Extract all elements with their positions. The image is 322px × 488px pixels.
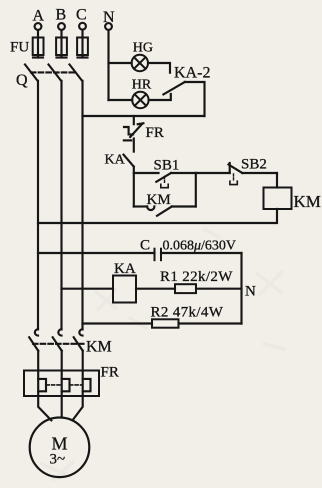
coil KM [264,188,292,210]
svg-text:KM: KM [294,192,321,211]
wire lamp-circuit bottom rail [83,115,205,117]
svg-text:FR: FR [146,125,164,141]
wire R2 row from phase C [83,322,153,324]
contact KA-2 changeover blade [163,82,184,94]
svg-text:B: B [56,7,67,24]
contact KM auxiliary (NO, self-hold) [147,207,196,216]
svg-text:C: C [140,238,150,254]
contactor KM main contact C [74,329,83,370]
lamp HR [132,92,148,108]
svg-text:SB1: SB1 [154,158,180,174]
wire loop right vertical [195,173,197,207]
svg-text:FU: FU [10,40,29,56]
wire FR through B [61,371,63,397]
wire capacitor to N rail [161,252,242,254]
wire R1 to N rail [196,288,242,290]
resistor R2 47k/4W [152,319,179,327]
svg-text:N: N [103,9,115,26]
button SB1 (NO) [156,173,196,188]
switch Q blade B [49,65,62,81]
wire HR branch left [109,99,133,101]
switch Q blade C [70,65,83,81]
wire phase B vertical [60,81,62,329]
thermal relay FR box [24,371,99,397]
wire capacitor branch from phase A [38,252,155,254]
wire KA coil to R1 [136,288,175,290]
wire FR through A [37,371,39,397]
switch Q pole B top contact [57,56,67,58]
svg-text:FR: FR [101,365,119,381]
svg-text:HG: HG [133,41,153,56]
wire KM aux branch left [134,205,147,207]
svg-text:SB2: SB2 [241,157,267,173]
wire SB2 to KM coil [276,173,278,188]
wire R2 to N rail [179,322,242,324]
wire branch to SB1 [134,172,159,174]
wire C terminal to fuse [81,30,83,58]
FR heater element B [62,379,70,391]
wire phase A vertical [37,81,39,329]
node N terminal [105,23,112,30]
wire KA-2 common to right rail [185,82,205,116]
wire FR through C [82,371,84,397]
wire A terminal to fuse [37,30,39,57]
switch Q linkage dashed [31,71,77,73]
capacitor C 0.068u/630V [155,249,162,261]
svg-text:HR: HR [132,78,152,93]
svg-text:KA: KA [114,261,136,277]
svg-text:KM: KM [86,339,112,356]
node C terminal [79,23,86,30]
svg-text:N: N [245,284,256,300]
svg-text:Q: Q [16,72,28,89]
FR heater element A [38,379,46,391]
svg-text:KM: KM [147,192,171,208]
switch Q pole A top contact [33,56,43,58]
wire SB1 loop to SB2 [196,172,230,174]
svg-text:KA-2: KA-2 [174,65,210,82]
FR heater element C [83,379,91,391]
wire KM coil bottom return [38,209,277,223]
node B terminal [58,23,65,30]
fuse FU phase A [33,38,44,56]
wire HG branch right with stub down [148,63,170,73]
wire KA coil row from phase B [62,288,114,290]
node A terminal [35,23,42,30]
wire N vertical [107,30,109,100]
svg-text:M: M [52,434,68,454]
wire motor lead C [73,396,83,420]
wire N right vertical [240,253,242,324]
motor M circle [30,418,90,478]
svg-text:R2 47k/4W: R2 47k/4W [151,305,224,321]
wire phase C vertical [81,81,83,329]
wire B terminal to fuse [60,30,62,57]
button SB2 (NC) [229,163,278,185]
svg-text:0.068μ/630V: 0.068μ/630V [163,239,237,254]
contactor KM main contact B [53,329,62,370]
FR linkage dashed [46,384,61,386]
contact FR (thermal NC) in control line [124,116,144,152]
contact KA (NO) [124,155,134,207]
contactor KM main contact A [29,329,38,370]
wire motor lead A [38,396,51,420]
resistor R1 22k/2W [175,284,196,293]
lamp HG [132,55,148,71]
svg-text:C: C [76,7,87,24]
fuse FU phase C [77,38,88,56]
switch Q pole C top contact [78,56,88,58]
coil KA [113,276,136,303]
wire HR branch right with stub up [149,94,171,100]
svg-text:R1 22k/2W: R1 22k/2W [160,269,233,285]
switch Q blade A [25,65,38,81]
contactor KM linkage dashed [33,343,84,345]
wire motor lead B [61,396,63,417]
svg-text:3~: 3~ [50,452,66,468]
wire HG branch left [109,62,132,64]
svg-text:KA: KA [105,153,126,168]
svg-text:A: A [33,8,45,25]
fuse FU phase B [56,38,67,56]
